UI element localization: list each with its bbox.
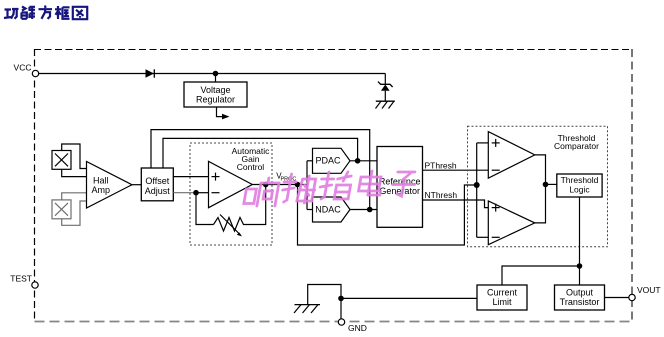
svg-text:Current: Current: [487, 288, 518, 298]
svg-text:Logic: Logic: [569, 185, 590, 195]
svg-text:Voltage: Voltage: [200, 85, 230, 95]
svg-text:GND: GND: [348, 323, 367, 333]
svg-text:Adjust: Adjust: [145, 186, 171, 196]
svg-text:NThresh: NThresh: [425, 190, 458, 200]
svg-text:Output: Output: [566, 288, 594, 298]
svg-text:Offset: Offset: [145, 176, 169, 186]
svg-text:Hall: Hall: [93, 176, 109, 186]
svg-text:Control: Control: [237, 162, 265, 172]
svg-text:VOUT: VOUT: [637, 285, 661, 295]
svg-text:VCC: VCC: [14, 63, 32, 73]
svg-text:Regulator: Regulator: [196, 94, 235, 104]
svg-text:PThresh: PThresh: [425, 161, 457, 171]
svg-text:NDAC: NDAC: [315, 204, 341, 214]
svg-text:Limit: Limit: [492, 297, 512, 307]
svg-text:Amp: Amp: [92, 185, 111, 195]
svg-text:Transistor: Transistor: [560, 297, 600, 307]
svg-text:PDAC: PDAC: [315, 156, 341, 166]
svg-text:TEST: TEST: [10, 274, 32, 284]
svg-text:Comparator: Comparator: [554, 141, 599, 151]
